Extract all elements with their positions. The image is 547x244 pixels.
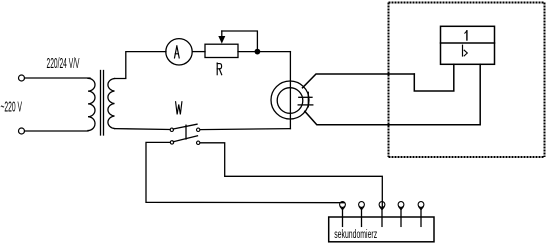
wire [238, 51, 290, 53]
dashed enclosure [389, 3, 545, 158]
stopwatch terminal 2 [359, 202, 365, 227]
switch W pole 1 right contact [197, 128, 200, 131]
stopwatch terminal 3 [379, 202, 385, 227]
stopwatch box [329, 217, 434, 242]
wire [414, 64, 454, 91]
terminal X2 [19, 128, 25, 134]
rheostat R wiper short wire [222, 31, 258, 52]
wire [200, 143, 382, 209]
stopwatch terminal 1 [340, 202, 346, 227]
svg-text:220/24 V/V: 220/24 V/V [47, 55, 80, 72]
transformer Tr primary winding [88, 78, 95, 130]
stopwatch terminal 4 [398, 202, 404, 227]
relay box divider [441, 42, 495, 44]
plug body bar [307, 92, 309, 107]
stopwatch terminal 5 [418, 202, 424, 227]
wire [200, 129, 290, 130]
transformer Tr core [100, 71, 102, 136]
junction dot [255, 49, 261, 55]
switch W pole 2 left contact [170, 141, 173, 144]
relay label I> [462, 45, 464, 56]
rheostat R body [205, 44, 238, 57]
switch W pole 1 left contact [170, 128, 173, 131]
wire [192, 51, 205, 53]
rheostat R wiper arrow [218, 36, 225, 44]
wire [289, 52, 291, 129]
wire [25, 130, 89, 132]
wire [115, 128, 171, 131]
svg-text:sekundomierz: sekundomierz [334, 229, 377, 241]
label R [217, 63, 222, 75]
wire [25, 77, 91, 79]
terminal X1 [19, 75, 25, 81]
switch W pole 2 blade [173, 136, 197, 142]
switch W pole 1 blade [173, 124, 197, 129]
switch W link [185, 125, 187, 139]
socket inner circle [277, 88, 303, 114]
plug pin 1 [299, 96, 312, 98]
ammeter A [166, 39, 192, 65]
switch W pole 2 right contact [197, 141, 200, 144]
socket outer circle [271, 81, 309, 119]
wire [305, 64, 480, 125]
label W [176, 102, 182, 115]
plug pin 2 [298, 104, 313, 106]
svg-text:~220 V: ~220 V [1, 99, 23, 116]
relay box [441, 26, 495, 64]
wire [303, 74, 415, 88]
transformer Tr secondary winding [108, 79, 115, 129]
relay label 1 [466, 31, 468, 40]
wire [146, 142, 344, 202]
wire [115, 52, 167, 79]
